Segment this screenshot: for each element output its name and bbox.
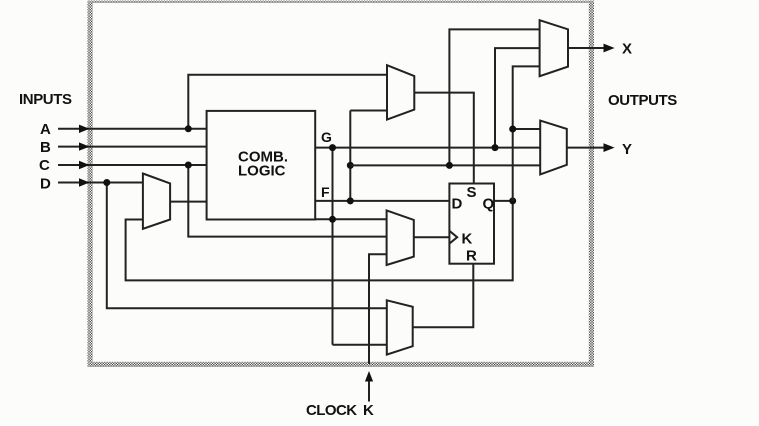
input C arrowhead [79,161,90,169]
svg-text:K: K [462,231,473,248]
svg-text:B: B [40,139,51,156]
wire net F up to mux M3 top input [449,29,539,165]
node F junction 2 [347,162,354,169]
node F junction 1 [347,197,354,204]
flip-flop U2 [449,184,494,264]
stippled boundary border bottom [88,362,595,367]
svg-text:G: G [321,129,332,145]
mux M5 (clock select) [387,210,414,265]
wire net G vertical [332,148,334,345]
input A arrowhead [79,125,90,133]
wire net F horizontal to mux M4 [350,164,540,166]
wire mux M1 output to comb logic [170,201,207,203]
input D arrowhead [79,178,90,186]
wire net G from comb logic to mux M4 [315,147,540,149]
node G junction 3 [492,144,499,151]
svg-text:X: X [622,41,632,58]
svg-text:A: A [40,121,51,138]
wire net F from comb logic to flip-flop D [315,200,449,202]
node C junction [185,162,192,169]
flip-flop clock wedge [449,231,457,244]
wire flip-flop Q output [494,200,513,202]
wire net G to mux M6 lower input [333,344,387,346]
wire Q feedback to mux M1 lower input [126,201,513,281]
mux M4 (output Y select) [540,121,567,175]
input B arrowhead [79,142,90,150]
node G junction 1 [329,144,336,151]
svg-text:D: D [40,176,51,193]
svg-text:OUTPUTS: OUTPUTS [608,92,677,109]
svg-text:S: S [467,184,477,201]
input C wire [58,164,207,166]
stippled boundary border left [88,1,93,367]
wire net G to mux M5 top input [315,218,386,220]
wire net G up to mux M3 middle input [495,48,540,148]
svg-text:F: F [321,184,330,200]
node A junction [185,125,192,132]
wire mux M6 output to flip-flop R [413,264,474,328]
node D junction [103,179,110,186]
mux M1 (input select) [143,174,170,229]
node Q junction 1 [509,197,516,204]
wire net D vertical down and to mux M6 [107,183,387,309]
wire output X with arrowhead [568,47,604,49]
svg-text:INPUTS: INPUTS [19,91,72,108]
wire net F vertical riser [349,111,351,201]
mux M3 (output X select) [540,20,568,76]
wire mux M2 output to flip-flop S [414,93,474,184]
input B wire [58,146,207,148]
svg-text:R: R [466,248,477,265]
comb logic block U1 [207,111,316,220]
mux M6 (R select) [387,300,413,354]
mux M2 (S select) [387,65,414,119]
wire net A vertical to mux M2 [188,75,387,129]
node G junction 2 [329,216,336,223]
wire net F to mux M2 lower input [350,110,387,112]
wire clock input to mux M5 lower input [369,254,387,364]
stippled boundary border top [88,1,595,3]
svg-text:K: K [363,402,374,419]
wire net C vertical down and to mux M5 [188,165,386,237]
svg-text:D: D [452,196,463,213]
wire mux M5 output to flip-flop K [414,236,450,238]
clock entry arrowhead below border [365,371,373,382]
node F junction 3 [446,162,453,169]
clock entry stem [368,381,370,402]
stippled boundary border right [589,1,594,367]
wire net Q to mux M4 top input [513,128,541,130]
wire output Y with arrowhead [567,147,604,149]
svg-text:LOGIC: LOGIC [238,163,286,180]
svg-text:C: C [39,157,50,174]
input A wire [58,128,207,130]
svg-text:Q: Q [483,196,495,213]
node Q junction 2 [509,126,516,133]
svg-text:Y: Y [622,141,632,158]
svg-text:CLOCK: CLOCK [306,402,357,419]
wire net Q riser up to mux M3 lower input [513,66,540,201]
input D wire [58,182,143,184]
